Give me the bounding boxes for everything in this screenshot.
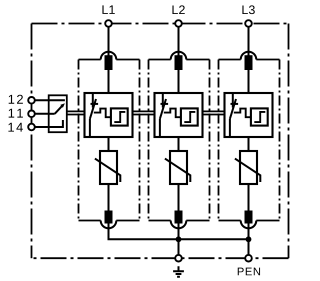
disconnector bottom lead xyxy=(229,119,231,137)
wire L3 terminal to top pin xyxy=(248,27,250,57)
varistor R2 body xyxy=(170,151,187,184)
wire module 3 to bus and PEN terminal xyxy=(248,223,250,255)
wire varistor to bottom pin xyxy=(248,184,250,211)
spark gap unit box U3 xyxy=(225,93,273,137)
module 3 boundary top edge xyxy=(219,59,280,61)
module 3 boundary bottom edge xyxy=(219,220,280,222)
step function symbol xyxy=(184,112,195,122)
trigger box xyxy=(251,108,268,125)
disconnector fixed contact tick xyxy=(161,103,169,105)
terminal 12 xyxy=(28,97,35,104)
wire pin to spark-gap box xyxy=(248,70,250,93)
module 1 boundary top edge xyxy=(79,59,140,61)
label L1 xyxy=(102,5,114,14)
step function symbol xyxy=(114,112,125,122)
bottom plug pin (black) xyxy=(175,211,183,224)
top plug pin (black) xyxy=(175,55,183,70)
bottom plug contact dome xyxy=(241,221,257,229)
bottom plug contact dome xyxy=(101,221,117,229)
label L2 xyxy=(172,5,184,14)
module 3 boundary right edge xyxy=(279,60,281,221)
mechanical linkage double line 2 xyxy=(133,111,155,114)
disconnector blade xyxy=(90,99,96,119)
ground symbol xyxy=(173,266,184,277)
wire module 2 to bus and ground terminal xyxy=(178,223,180,255)
enclosure border top edge xyxy=(32,23,289,25)
terminal L3 xyxy=(245,20,252,27)
contact 14 line (NO) with stub xyxy=(49,120,63,127)
junction dot module 2 / bus xyxy=(176,236,182,242)
disconnector blade xyxy=(230,99,236,119)
wire terminal 11 to contact box xyxy=(32,113,49,115)
blade arrowhead xyxy=(60,103,65,108)
step function symbol xyxy=(254,112,265,122)
enclosure border left edge xyxy=(31,24,33,259)
mechanical linkage double line 1 xyxy=(67,111,85,114)
contact blade from 11 xyxy=(55,105,63,114)
spark gap unit box U2 xyxy=(155,93,203,137)
disconnector bottom lead xyxy=(89,119,91,137)
enclosure border right edge xyxy=(288,24,290,259)
module 2 boundary bottom edge xyxy=(149,220,210,222)
terminal 14 xyxy=(28,124,35,131)
mechanical linkage double line 3 xyxy=(203,111,225,114)
wire terminal 14 to contact box xyxy=(32,126,49,128)
disconnector bottom lead xyxy=(159,119,161,137)
disconnector top lead xyxy=(162,94,164,108)
impulse waveform xyxy=(164,109,181,118)
disconnector fixed contact tick xyxy=(231,103,239,105)
module 1 boundary left edge xyxy=(78,60,80,221)
module 3 boundary left edge xyxy=(218,60,220,221)
wire spark-gap box to varistor xyxy=(248,137,250,151)
top plug pin (black) xyxy=(245,55,253,70)
spark gap unit box U1 xyxy=(85,93,133,137)
wire L2 terminal to top pin xyxy=(178,27,180,57)
varistor R3 body xyxy=(240,151,257,184)
varistor R1 body xyxy=(100,151,117,184)
wire module 1 to PE bus xyxy=(109,223,249,239)
label PEN xyxy=(238,268,260,276)
top plug contact dome xyxy=(101,52,117,60)
module 1 boundary bottom edge xyxy=(79,220,140,222)
terminal L1 xyxy=(105,20,112,27)
module 2 boundary left edge xyxy=(148,60,150,221)
wire pin to spark-gap box xyxy=(108,70,110,93)
label terminal 14 xyxy=(8,123,22,132)
wire spark-gap box to varistor xyxy=(108,137,110,151)
enclosure border bottom edge xyxy=(32,257,289,259)
wire varistor to bottom pin xyxy=(108,184,110,211)
disconnector blade xyxy=(160,99,166,119)
ground terminal circle xyxy=(175,255,182,262)
varistor diagonal stroke xyxy=(235,159,260,182)
changeover contact box K1 xyxy=(49,95,67,132)
top plug pin (black) xyxy=(105,55,113,70)
disconnector top lead xyxy=(92,94,94,108)
module 2 boundary right edge xyxy=(209,60,211,221)
bottom plug pin (black) xyxy=(245,211,253,224)
trigger box xyxy=(181,108,198,125)
label terminal 11 xyxy=(9,109,23,118)
junction dot module 3 / bus xyxy=(246,236,252,242)
contact 12 line (NC) xyxy=(49,99,65,101)
module 1 boundary right edge xyxy=(139,60,141,221)
top plug contact dome xyxy=(241,52,257,60)
disconnector fixed contact tick xyxy=(91,103,99,105)
wire terminal 12 to contact box xyxy=(32,99,49,101)
wire pin to spark-gap box xyxy=(178,70,180,93)
impulse waveform xyxy=(234,109,251,118)
impulse waveform xyxy=(94,109,111,118)
module 2 boundary top edge xyxy=(149,59,210,61)
bottom plug contact dome xyxy=(171,221,187,229)
terminal 11 xyxy=(28,111,35,118)
contact 11 line inside box xyxy=(49,113,55,115)
wire varistor to bottom pin xyxy=(178,184,180,211)
terminal L2 xyxy=(175,20,182,27)
varistor diagonal stroke xyxy=(95,159,120,182)
label L3 xyxy=(242,5,254,14)
label terminal 12 xyxy=(9,95,23,104)
PEN terminal circle xyxy=(245,255,252,262)
wire L1 terminal to top pin xyxy=(108,27,110,57)
bottom plug pin (black) xyxy=(105,211,113,224)
wire spark-gap box to varistor xyxy=(178,137,180,151)
disconnector top lead xyxy=(232,94,234,108)
trigger box xyxy=(111,108,128,125)
top plug contact dome xyxy=(171,52,187,60)
varistor diagonal stroke xyxy=(165,159,190,182)
